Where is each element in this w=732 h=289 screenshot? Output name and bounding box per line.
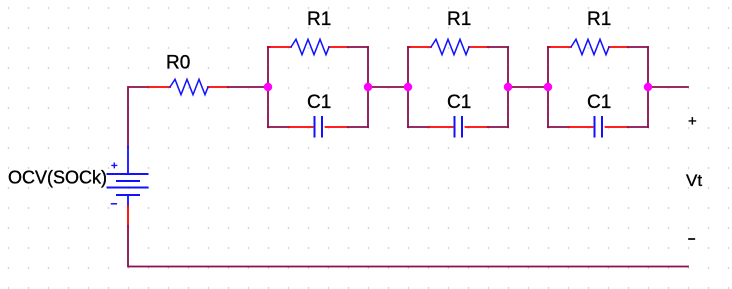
junction node 6 — [644, 83, 652, 91]
capacitor C1 (first) — [268, 117, 368, 137]
svg-text:R1: R1 — [587, 9, 611, 30]
capacitor C1 (second) — [408, 117, 508, 137]
wire from battery + terminal up and right to R0 — [128, 87, 148, 147]
resistor R1 (first) — [268, 39, 368, 54]
resistor R1 (third) — [548, 39, 648, 54]
svg-text:C1: C1 — [447, 92, 471, 113]
RC pair 2 : right vertical wire — [507, 47, 509, 127]
output wire to Vt terminal — [648, 86, 688, 88]
svg-text:OCV(SOCk): OCV(SOCk) — [8, 168, 107, 188]
output minus terminal label — [689, 238, 694, 240]
svg-text:C1: C1 — [587, 92, 611, 113]
svg-text:C1: C1 — [307, 92, 331, 113]
battery U1 OCV(SOCk) — [108, 147, 148, 226]
RC pair 3 : right vertical wire — [647, 47, 649, 127]
resistor R0 — [148, 79, 228, 94]
RC pair 1 : left vertical wire — [267, 47, 269, 127]
battery plus mark — [112, 163, 117, 168]
junction node 4 — [504, 83, 512, 91]
svg-text:Vt: Vt — [686, 171, 702, 190]
svg-text:+: + — [688, 113, 697, 130]
junction node 5 — [544, 83, 552, 91]
battery minus mark — [112, 203, 117, 205]
RC pair 3 : left vertical wire — [547, 47, 549, 127]
svg-text:R0: R0 — [166, 53, 190, 74]
junction node 3 — [404, 83, 412, 91]
RC pair 2 : left vertical wire — [407, 47, 409, 127]
bottom return wire — [128, 226, 688, 267]
svg-text:R1: R1 — [307, 9, 331, 30]
svg-text:R1: R1 — [447, 9, 471, 30]
resistor R1 (second) — [408, 39, 508, 54]
capacitor C1 (third) — [548, 117, 648, 137]
wire R0 to node 1 — [228, 86, 268, 88]
RC pair 1 : right vertical wire — [367, 47, 369, 127]
wire node1 right side to RC pair 2 — [368, 86, 408, 88]
junction node 1 — [264, 83, 272, 91]
junction node 2 — [364, 83, 372, 91]
wire RC pair 2 to RC pair 3 — [508, 86, 548, 88]
